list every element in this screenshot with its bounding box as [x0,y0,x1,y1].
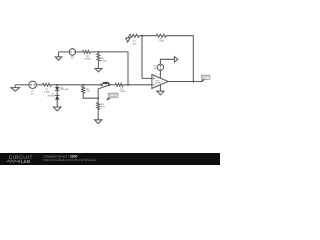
voltage source V2 [157,64,163,70]
wire R8 to corner, down to node D [91,52,129,85]
voltage source V3 [69,49,75,55]
diode D1 [55,94,60,96]
svg-text:100kΩ: 100kΩ [84,58,91,61]
svg-text:1N4148: 1N4148 [47,94,55,97]
wire V3 to R8 [76,51,83,53]
wire R6 to feedback corner down to output [166,36,193,82]
wire D1 to ground [56,100,58,107]
svg-text:LAB: LAB [21,159,31,164]
svg-text:4.6kΩ: 4.6kΩ [44,90,50,93]
wire R7 to R6 [139,35,156,37]
resistor R5 [97,52,99,54]
svg-text:TL081: TL081 [155,82,162,85]
svg-text:1N4148: 1N4148 [60,88,68,91]
wire R3 to ground [97,110,99,120]
flag VCC terminal [174,57,178,63]
svg-text:3.3kΩ: 3.3kΩ [119,90,125,93]
op-amp top supply pin [159,71,161,78]
svg-text:1kΩ: 1kΩ [132,42,136,45]
wire R1 to node A [51,84,83,86]
watermark bar [0,153,220,165]
wire V2 to flag [160,59,174,64]
resistor R7 [129,34,139,37]
resistor R2 [82,86,85,93]
wire G1 to V1 [15,84,29,86]
diode D2 [55,87,60,90]
ground G2 (below diodes) [53,107,61,111]
node B (R2 tap) [82,84,84,86]
svg-text:4.6kΩ: 4.6kΩ [101,60,107,63]
ground G4 (left of V3) [58,52,60,57]
svg-text:1kΩ: 1kΩ [86,90,90,93]
svg-text:2.2kΩ: 2.2kΩ [158,40,164,43]
wire switch hinge down to R3 [97,89,99,103]
resistor R4 [115,83,123,86]
node G (feedback junction) [192,81,194,83]
wire D2 to D1 [56,90,58,95]
wire R5 to ground [97,61,99,68]
op-amp bottom supply pin [159,85,161,91]
resistor R3 [97,103,100,110]
wire op-amp output [168,81,202,83]
svg-text:1kΩ: 1kΩ [101,105,105,108]
node C [97,97,99,99]
svg-text:SW1: SW1 [103,81,110,85]
wire node A down [56,85,58,87]
ground G1 (left of V1) [14,85,16,88]
svg-text:http://circuitlab.com/c/hsm27q: http://circuitlab.com/c/hsm27q5e32a [44,158,97,162]
node E (R5 tap) [97,51,99,53]
switch SW1 [101,84,103,86]
wire R4 to op-amp inverting input [123,84,152,86]
ground G3 (below R3) [95,120,102,124]
resistor R1 [43,83,52,86]
ground G7 (below op-amp) [157,91,164,95]
op-amp OA1 [152,75,168,89]
wire switch to R4 [110,84,115,86]
ground G6 (left of R7) [128,36,129,38]
voltage source V1 [29,81,36,88]
wire node A to switch [83,84,101,86]
resistor R8 [83,50,91,53]
tooltip (output) [202,79,206,82]
svg-text:Clau: Clau [202,77,206,80]
node A (diode tap) [56,84,58,86]
resistor R6 [156,34,166,37]
ground G5 (below R5) [95,69,102,72]
wire G4 to V3 [59,51,70,53]
tooltip (switch) [107,98,112,101]
svg-text:ClauSib: ClauSib [109,95,116,98]
node F (divider to +input) [141,35,143,37]
wire node F down to +input [142,36,152,79]
wire R2 bottom L to R3 column [83,93,98,98]
wire V1 to R1 [36,84,42,86]
node D (feedback/bias join) [127,84,129,86]
